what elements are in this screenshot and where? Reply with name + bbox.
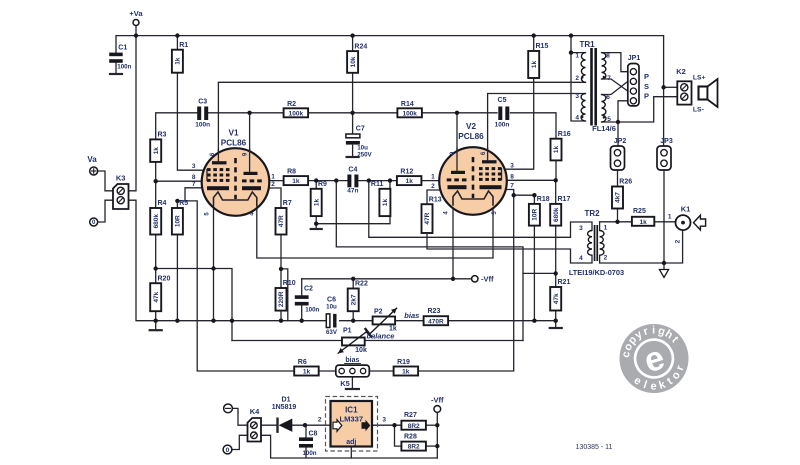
svg-text:LTEI19/KD-0703: LTEI19/KD-0703 — [569, 268, 624, 277]
svg-text:8: 8 — [606, 53, 610, 60]
svg-text:LM337: LM337 — [339, 415, 363, 424]
svg-text:K1: K1 — [681, 205, 691, 214]
svg-text:R11: R11 — [371, 181, 384, 188]
svg-text:1k: 1k — [313, 199, 320, 207]
svg-text:470R: 470R — [428, 318, 444, 325]
svg-text:-Vff: -Vff — [431, 396, 444, 405]
svg-text:JP2: JP2 — [614, 138, 627, 145]
svg-text:47k: 47k — [553, 293, 560, 304]
svg-text:R14: R14 — [401, 101, 414, 108]
svg-text:7: 7 — [607, 75, 611, 82]
svg-text:47R: 47R — [278, 215, 285, 227]
svg-text:D1: D1 — [282, 397, 291, 404]
svg-text:JP1: JP1 — [628, 55, 641, 62]
svg-text:4: 4 — [575, 114, 579, 121]
svg-text:10R: 10R — [175, 215, 182, 227]
svg-text:R13: R13 — [429, 196, 442, 203]
svg-text:balance: balance — [367, 331, 395, 340]
svg-text:PCL86: PCL86 — [458, 132, 484, 141]
svg-text:10u: 10u — [326, 303, 337, 310]
svg-text:1k: 1k — [175, 57, 182, 65]
svg-text:R22: R22 — [355, 281, 368, 288]
svg-text:adj: adj — [346, 439, 356, 446]
svg-text:R1: R1 — [179, 42, 188, 49]
svg-text:2: 2 — [675, 239, 682, 243]
svg-text:C3: C3 — [198, 98, 207, 105]
svg-text:10R: 10R — [532, 209, 539, 221]
svg-text:10u: 10u — [357, 144, 368, 151]
svg-text:680k: 680k — [553, 207, 560, 222]
svg-text:K4: K4 — [250, 407, 260, 416]
svg-text:FL14/6: FL14/6 — [592, 124, 616, 133]
svg-text:bias: bias — [345, 357, 359, 364]
svg-text:2: 2 — [318, 417, 322, 424]
svg-text:4: 4 — [579, 255, 583, 262]
svg-text:4k7: 4k7 — [615, 192, 622, 203]
svg-text:1k: 1k — [153, 147, 160, 155]
svg-text:2: 2 — [575, 75, 579, 82]
svg-text:3: 3 — [575, 93, 579, 100]
svg-text:V1: V1 — [228, 129, 238, 138]
svg-text:R2: R2 — [287, 101, 296, 108]
svg-text:LS+: LS+ — [693, 75, 706, 82]
svg-text:7: 7 — [510, 183, 514, 190]
svg-text:3: 3 — [579, 225, 583, 232]
svg-text:63V: 63V — [326, 329, 338, 336]
svg-text:Va: Va — [87, 155, 97, 164]
svg-text:R5: R5 — [179, 200, 188, 207]
svg-text:1k: 1k — [402, 369, 410, 376]
svg-text:2: 2 — [431, 183, 435, 190]
svg-text:1k: 1k — [406, 178, 414, 185]
svg-text:C5: C5 — [498, 97, 507, 104]
svg-text:2: 2 — [271, 181, 275, 188]
svg-text:47k: 47k — [153, 291, 160, 302]
svg-text:-Vff: -Vff — [481, 275, 494, 284]
svg-text:R24: R24 — [354, 43, 367, 50]
svg-text:V2: V2 — [466, 122, 476, 131]
svg-text:3: 3 — [382, 417, 386, 424]
svg-text:100n: 100n — [495, 122, 510, 129]
svg-text:R10: R10 — [283, 280, 296, 287]
svg-text:3: 3 — [510, 162, 514, 169]
svg-text:R20: R20 — [158, 275, 171, 282]
svg-text:1k: 1k — [531, 61, 538, 69]
svg-text:0: 0 — [226, 447, 230, 454]
svg-text:7: 7 — [192, 181, 196, 188]
svg-text:R7: R7 — [283, 200, 292, 207]
svg-text:3: 3 — [192, 163, 196, 170]
svg-text:R15: R15 — [536, 43, 549, 50]
svg-text:R6: R6 — [298, 359, 307, 366]
svg-text:R17: R17 — [558, 196, 571, 203]
svg-text:100n: 100n — [305, 306, 319, 313]
svg-text:R12: R12 — [400, 169, 413, 176]
svg-text:8: 8 — [510, 173, 514, 180]
svg-text:R19: R19 — [397, 359, 410, 366]
svg-text:1k: 1k — [292, 178, 300, 185]
svg-text:e: e — [651, 380, 657, 392]
svg-text:R3: R3 — [158, 132, 167, 139]
svg-text:R8: R8 — [287, 169, 296, 176]
svg-text:1k: 1k — [639, 219, 647, 226]
svg-text:2: 2 — [604, 254, 608, 261]
svg-text:1k: 1k — [553, 146, 560, 154]
svg-text:1k: 1k — [382, 199, 389, 207]
svg-text:C8: C8 — [309, 430, 318, 437]
svg-text:R26: R26 — [619, 179, 632, 186]
svg-text:10k: 10k — [355, 347, 367, 354]
svg-text:47n: 47n — [347, 188, 358, 195]
svg-text:100n: 100n — [302, 450, 316, 457]
svg-text:6: 6 — [606, 94, 610, 101]
svg-text:8R2: 8R2 — [408, 444, 420, 451]
svg-text:1: 1 — [431, 173, 435, 180]
svg-text:K3: K3 — [116, 174, 126, 183]
svg-text:K5: K5 — [340, 379, 350, 388]
svg-text:R18: R18 — [537, 196, 550, 203]
svg-text:10k: 10k — [350, 56, 357, 67]
svg-text:680k: 680k — [153, 214, 160, 229]
svg-text:C4: C4 — [348, 166, 357, 173]
svg-text:1: 1 — [271, 173, 275, 180]
svg-text:R28: R28 — [404, 434, 417, 441]
svg-text:P2: P2 — [374, 308, 383, 315]
svg-text:1: 1 — [604, 225, 608, 232]
svg-text:i: i — [652, 324, 655, 336]
svg-text:+Va: +Va — [129, 9, 143, 18]
svg-text:R9: R9 — [318, 181, 327, 188]
svg-text:JP3: JP3 — [660, 138, 673, 145]
svg-text:R4: R4 — [158, 200, 167, 207]
svg-text:2k7: 2k7 — [350, 294, 357, 305]
svg-text:100n: 100n — [195, 122, 210, 129]
svg-text:130385 - 11: 130385 - 11 — [576, 444, 613, 451]
svg-text:LS-: LS- — [693, 107, 704, 114]
svg-text:C2: C2 — [304, 285, 313, 292]
svg-text:C1: C1 — [118, 44, 127, 51]
svg-text:1: 1 — [668, 213, 672, 220]
svg-text:100k: 100k — [289, 110, 304, 117]
svg-text:8R2: 8R2 — [408, 423, 420, 430]
svg-text:220R: 220R — [278, 291, 285, 307]
svg-text:100n: 100n — [117, 63, 131, 70]
svg-text:1: 1 — [575, 53, 579, 60]
svg-text:R25: R25 — [633, 208, 646, 215]
svg-text:1N5819: 1N5819 — [272, 404, 297, 411]
svg-text:K2: K2 — [676, 67, 686, 76]
svg-text:TR1: TR1 — [579, 40, 595, 49]
svg-text:47R: 47R — [424, 212, 431, 224]
svg-text:IC1: IC1 — [345, 406, 358, 415]
svg-text:1k: 1k — [303, 369, 311, 376]
svg-text:100k: 100k — [402, 110, 417, 117]
svg-text:S: S — [644, 82, 649, 91]
svg-text:P: P — [644, 92, 649, 101]
svg-text:PCL86: PCL86 — [221, 139, 247, 148]
svg-text:250V: 250V — [357, 151, 372, 158]
svg-text:TR2: TR2 — [584, 209, 600, 218]
svg-text:C7: C7 — [356, 126, 365, 133]
svg-text:5: 5 — [607, 116, 611, 123]
svg-text:R27: R27 — [404, 412, 417, 419]
svg-text:bias: bias — [404, 311, 419, 320]
svg-text:R16: R16 — [558, 131, 571, 138]
svg-text:R21: R21 — [558, 279, 571, 286]
svg-text:P: P — [644, 72, 649, 81]
svg-text:P1: P1 — [343, 328, 352, 335]
svg-text:R23: R23 — [428, 308, 441, 315]
